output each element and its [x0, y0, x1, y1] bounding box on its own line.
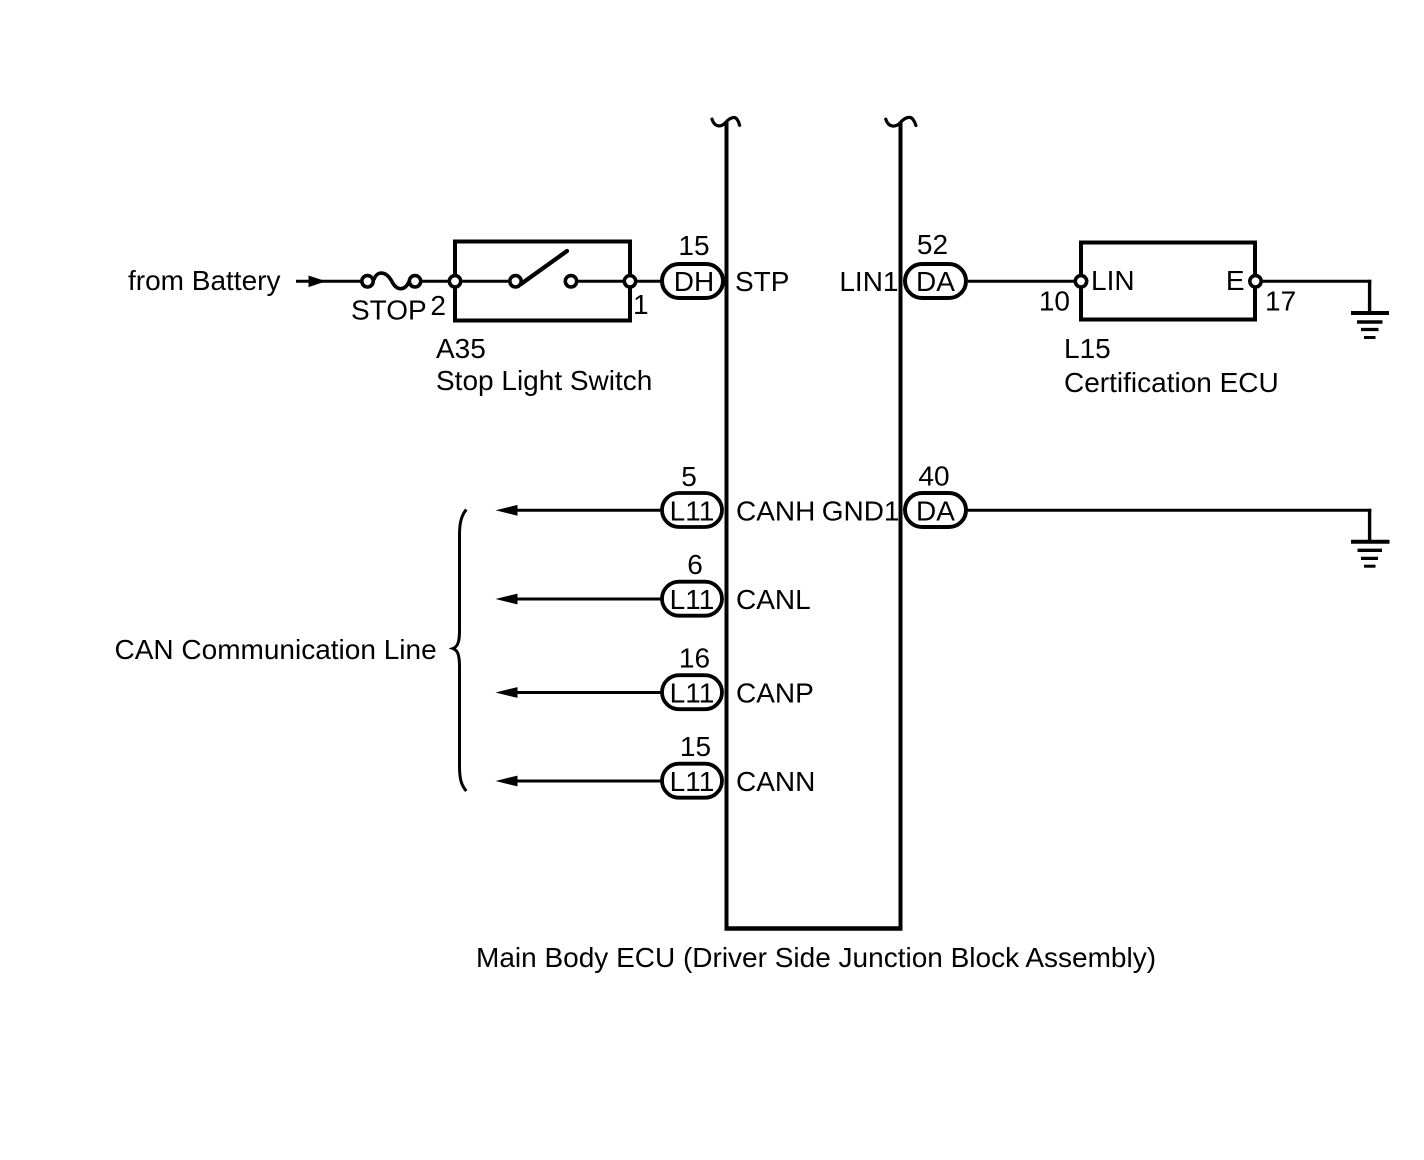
break mark left — [712, 118, 740, 126]
svg-text:A35: A35 — [436, 333, 486, 364]
svg-text:STP: STP — [735, 266, 789, 297]
svg-text:LIN1: LIN1 — [839, 266, 898, 297]
wire GND1 to ground — [968, 509, 1371, 540]
ground (Certification ECU E) — [1351, 313, 1389, 338]
connector L11 (CANP) — [662, 675, 722, 709]
Certification ECU box — [1081, 243, 1255, 320]
wire pin2 to contact — [463, 280, 509, 283]
node CANP wire with arrow — [496, 687, 663, 698]
fuse STOP — [362, 273, 421, 289]
wire contact to pin1 — [579, 280, 624, 283]
ground (GND1) — [1351, 542, 1390, 566]
svg-text:CAN Communication Line: CAN Communication Line — [115, 634, 437, 665]
svg-text:15: 15 — [678, 230, 709, 261]
svg-text:STOP: STOP — [351, 295, 427, 326]
svg-text:L11: L11 — [670, 678, 715, 709]
svg-text:L15: L15 — [1064, 333, 1111, 364]
svg-text:10: 10 — [1039, 286, 1070, 317]
svg-text:CANN: CANN — [736, 766, 815, 797]
svg-text:L11: L11 — [670, 766, 715, 797]
svg-text:DA: DA — [916, 495, 955, 526]
svg-text:52: 52 — [917, 229, 948, 260]
svg-text:Main Body ECU (Driver Side Jun: Main Body ECU (Driver Side Junction Bloc… — [476, 942, 1156, 973]
switch contact right — [565, 276, 576, 287]
svg-text:5: 5 — [681, 461, 697, 492]
wire DA to LIN pin — [968, 280, 1076, 283]
node CANL wire with arrow — [496, 594, 663, 605]
node CANH wire with arrow — [496, 505, 663, 516]
wire pin1 to connector DH — [638, 280, 663, 283]
svg-text:Stop Light Switch: Stop Light Switch — [436, 365, 652, 396]
svg-text:40: 40 — [918, 461, 949, 492]
wire fuse to switch — [421, 280, 450, 283]
svg-text:CANH: CANH — [736, 495, 815, 526]
connector DA (LIN1) — [905, 264, 966, 298]
pin 1 terminal — [624, 276, 635, 287]
pin 2 terminal — [449, 276, 460, 287]
svg-text:E: E — [1226, 265, 1245, 296]
svg-text:6: 6 — [687, 549, 703, 580]
node CANN wire with arrow — [496, 776, 663, 787]
svg-text:Certification ECU: Certification ECU — [1064, 367, 1279, 398]
connector L11 (CANL) — [662, 582, 722, 616]
switch lever — [521, 251, 567, 284]
break mark right — [886, 117, 916, 126]
Main Body ECU right boundary line — [899, 122, 903, 927]
svg-text:CANL: CANL — [736, 584, 811, 615]
svg-text:2: 2 — [430, 290, 446, 321]
connector L11 (CANN) — [662, 764, 722, 798]
svg-text:DA: DA — [916, 266, 955, 297]
connector L11 (CANH) — [662, 493, 722, 527]
svg-text:17: 17 — [1265, 286, 1296, 317]
svg-text:L11: L11 — [670, 495, 715, 526]
svg-text:L11: L11 — [670, 584, 715, 615]
switch contact left — [510, 276, 521, 287]
pin LIN terminal — [1075, 276, 1086, 287]
svg-text:15: 15 — [680, 731, 711, 762]
svg-text:from Battery: from Battery — [128, 265, 280, 296]
Main Body ECU bottom edge — [725, 926, 903, 931]
svg-text:16: 16 — [679, 643, 710, 674]
svg-text:CANP: CANP — [736, 678, 814, 709]
Main Body ECU left boundary line — [725, 122, 729, 927]
brace CAN group — [453, 510, 466, 792]
svg-text:LIN: LIN — [1091, 265, 1135, 296]
wire E to ground — [1263, 280, 1371, 311]
connector DA (GND1) — [905, 493, 966, 527]
svg-text:1: 1 — [633, 289, 649, 320]
pin E terminal — [1250, 276, 1261, 287]
svg-text:GND1: GND1 — [822, 495, 900, 526]
wire from battery with arrow — [296, 276, 361, 288]
switch A35 box — [455, 242, 630, 321]
connector DH — [662, 264, 723, 298]
svg-text:DH: DH — [674, 266, 714, 297]
